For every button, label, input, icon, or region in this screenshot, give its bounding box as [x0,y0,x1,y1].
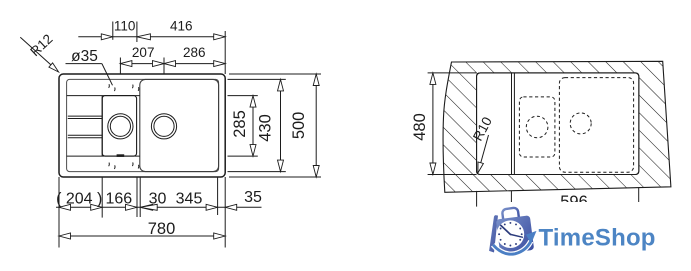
chain dim line [56,206,262,208]
svg-text:500: 500 [290,112,308,140]
dim 500 extension lines [229,73,321,75]
dim 110 arrows [101,34,113,40]
swoosh arrow [493,241,531,254]
drainer rib pair 1 [68,115,102,117]
small bowl [102,96,136,157]
svg-text:ø35: ø35 [71,48,98,65]
svg-text:430: 430 [256,114,274,142]
cutout outline [477,73,639,175]
main bowl [140,79,219,171]
cutout double divider lines [511,73,513,175]
svg-text:480: 480 [411,113,429,141]
dim row2 extension to small drain [119,58,121,75]
svg-text:30: 30 [149,190,167,207]
dim 207 arrows [120,61,131,67]
dim 286 arrows [164,61,176,67]
cut width extension lines [476,191,478,207]
logo white backdrop [480,202,691,271]
R12 leader [20,37,57,70]
svg-text:166: 166 [105,190,132,207]
sink outer outline [59,74,225,177]
dim 780 line [59,235,225,237]
bag back flap [489,215,498,252]
dim 430 extension lines [228,78,286,80]
dim 480 line [432,73,434,175]
bag body [496,215,534,254]
dashed main drain [570,113,591,134]
dim 430 line [280,79,282,171]
clock hands [501,225,511,234]
bag handle [502,207,519,222]
dim 480 extension lines [428,72,477,74]
clock face [497,220,525,248]
dim row1 extension line left (tap center) [112,22,114,40]
dim row1 extension line mid [136,22,138,43]
main bowl drain [151,114,176,139]
band line top (small-bowl zone) [67,95,140,97]
drainer divider line [101,96,103,157]
svg-text:TimeShop: TimeShop [539,224,656,251]
dashed small drain [526,116,548,138]
svg-text:285: 285 [231,110,249,138]
tap hole dashes bottom [108,163,111,167]
dim 285 line [252,96,254,157]
small bowl drain [108,114,133,139]
drainer rib pair 2 [68,134,102,136]
dim row1 line [78,36,225,38]
sink inner rim [67,79,219,171]
dim row1 extension line right [224,31,226,74]
clock tick dots [509,222,511,224]
dim 416 right arrow [214,34,226,40]
tap hole dashes top [108,84,111,88]
chain extension lines below sink [58,177,60,248]
svg-text:416: 416 [170,19,193,34]
svg-text:286: 286 [183,45,206,60]
svg-text:110: 110 [114,19,136,34]
dim 500 line [315,74,317,177]
dashed main bowl outline [559,78,633,173]
svg-text:780: 780 [148,220,176,238]
svg-text:( 204 ): ( 204 ) [56,190,102,207]
dashed small bowl outline [519,97,555,157]
svg-text:35: 35 [244,189,262,206]
dim 285 extension lines [228,95,258,97]
R10 leader [479,135,489,171]
chain arrows [59,204,71,210]
overflow notch small bowl [117,154,125,157]
countertop hatched panel [443,61,671,192]
svg-text:345: 345 [176,190,203,207]
dia 35 leader underline [66,63,102,65]
dia 35 leader diagonal [102,64,113,86]
band line bottom (small-bowl zone) [67,155,140,157]
dim row2 line [120,63,225,65]
svg-text:207: 207 [132,45,155,60]
dim row2 extension to main drain [163,58,165,75]
